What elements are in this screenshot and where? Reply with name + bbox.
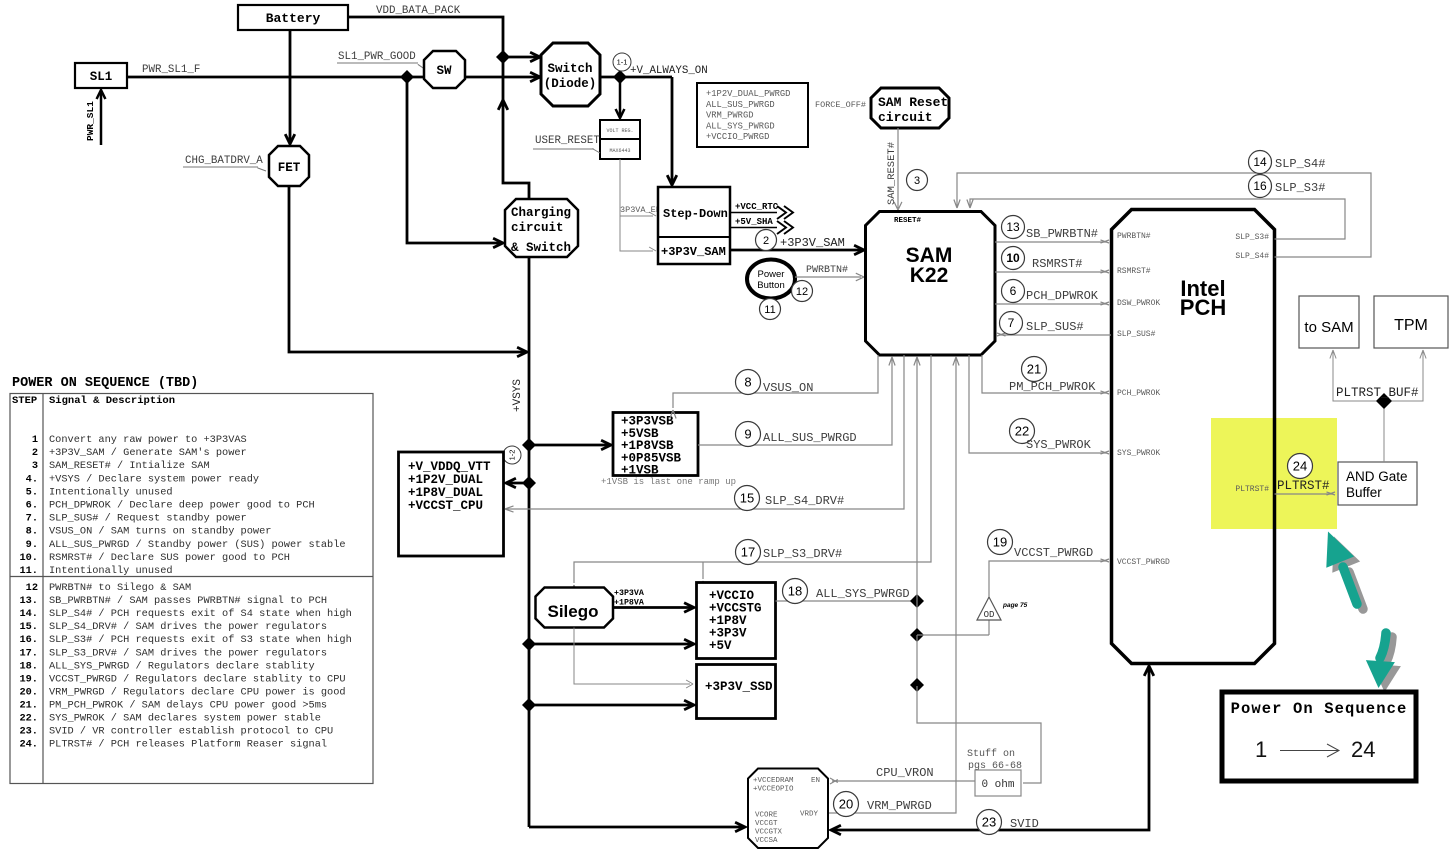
svg-text:+1P8V_DUAL: +1P8V_DUAL	[408, 486, 483, 500]
svg-text:7.: 7.	[26, 513, 38, 525]
node 11	[760, 299, 781, 320]
transistor FET	[269, 146, 309, 186]
node 8	[736, 370, 761, 395]
svg-text:VCORE: VCORE	[755, 812, 778, 820]
node junction ALL_SYS	[910, 594, 924, 608]
wire ALL_SYS_PWRGD net	[776, 600, 915, 602]
wire rail to VR core	[529, 826, 742, 829]
svg-text:K22: K22	[910, 264, 949, 287]
wire SLP_S4# PCH to SAM top	[957, 173, 1371, 257]
legend Power On Sequence box	[1222, 692, 1416, 781]
wire VRM_PWRGD VR to SAM	[828, 359, 956, 813]
svg-text:+1P2V_DUAL: +1P2V_DUAL	[408, 473, 483, 487]
svg-text:PM_PCH_PWROK: PM_PCH_PWROK	[1009, 380, 1096, 394]
svg-text:+VCCEOPIO: +VCCEOPIO	[753, 786, 794, 794]
svg-text:(Diode): (Diode)	[544, 77, 597, 91]
svg-text:15: 15	[740, 491, 754, 506]
svg-text:circuit: circuit	[878, 110, 933, 125]
svg-text:VCCSA: VCCSA	[755, 837, 778, 845]
svg-text:14.: 14.	[19, 608, 38, 620]
svg-text:+5V_SHA: +5V_SHA	[735, 217, 773, 227]
svg-text:+V_VDDQ_VTT: +V_VDDQ_VTT	[408, 460, 491, 474]
svg-text:14: 14	[1253, 155, 1267, 169]
block Charging circuit and Switch	[505, 199, 578, 257]
svg-text:SLP_S3#: SLP_S3#	[1275, 181, 1325, 195]
svg-text:19: 19	[993, 535, 1007, 550]
wire junction down to 0 ohm loop	[916, 635, 918, 686]
svg-text:Intentionally unused: Intentionally unused	[49, 486, 173, 498]
wire SYS_PWROK SAM to PCH	[969, 355, 1106, 453]
svg-text:PM_PCH_PWROK / SAM delays CPU: PM_PCH_PWROK / SAM delays CPU power good…	[49, 699, 327, 711]
svg-text:SVID: SVID	[1010, 817, 1039, 831]
wire +3P3V_SAM to SAM	[730, 249, 862, 252]
node 12	[792, 281, 813, 302]
svg-text:& Switch: & Switch	[511, 241, 571, 255]
svg-text:VRDY: VRDY	[800, 811, 819, 819]
svg-text:Silego: Silego	[547, 602, 598, 621]
node 1-2	[503, 446, 521, 464]
regulator +V_VDDQ_VTT dual rails	[399, 452, 504, 556]
node 9	[736, 422, 761, 447]
wire Battery to FET	[289, 30, 292, 143]
block SAM Reset circuit	[871, 88, 949, 128]
wire junction down to voltage regulator	[619, 77, 622, 116]
wire VSUS_ON SAM to standby regulators	[673, 355, 878, 408]
svg-text:23: 23	[982, 815, 996, 830]
wire SB_PWRBTN# SAM to PCH	[995, 241, 1106, 243]
svg-text:+V_ALWAYS_ON: +V_ALWAYS_ON	[630, 65, 708, 77]
wire RSMRST# SAM to PCH	[995, 271, 1106, 273]
svg-text:16.: 16.	[19, 634, 38, 646]
wire +V_ALWAYS_ON from Switch Diode	[600, 76, 672, 79]
wire rail to +3P3VSB regulators	[529, 444, 608, 447]
svg-text:SLP_S4#: SLP_S4#	[1235, 252, 1269, 261]
wire ALL_SUS_PWRGD to SAM	[698, 359, 892, 445]
svg-text:SYS_PWROK / SAM declares syst: SYS_PWROK / SAM declares system power st…	[49, 713, 321, 725]
svg-text:5.: 5.	[26, 486, 38, 498]
node junction PLTRST_BUF#	[1376, 393, 1392, 409]
svg-text:PWR_SL1_F: PWR_SL1_F	[142, 64, 200, 76]
battery Battery	[238, 5, 348, 30]
svg-text:12: 12	[796, 286, 808, 298]
svg-text:to SAM: to SAM	[1304, 319, 1353, 336]
svg-text:6.: 6.	[26, 500, 38, 512]
svg-text:24: 24	[1293, 459, 1307, 474]
wire SVID PCH to VR	[833, 667, 1149, 830]
svg-text:FET: FET	[278, 161, 301, 175]
node 17	[736, 540, 761, 565]
svg-text:VOLT REG.: VOLT REG.	[606, 128, 633, 134]
svg-text:ALL_SYS_PWRGD: ALL_SYS_PWRGD	[706, 121, 775, 131]
svg-text:+5V: +5V	[709, 639, 732, 653]
svg-text:RSMRST#: RSMRST#	[1032, 257, 1082, 271]
node 20	[834, 792, 859, 817]
svg-text:SB_PWRBTN# / SAM passes PWRBTN: SB_PWRBTN# / SAM passes PWRBTN# signal t…	[49, 595, 327, 607]
block Silego	[536, 588, 614, 628]
block signal list PWRGD	[697, 83, 808, 147]
block to SAM	[1299, 296, 1359, 348]
svg-text:16: 16	[1253, 179, 1267, 193]
svg-text:1: 1	[32, 434, 38, 446]
svg-text:VCCST_PWRGD / Regulators decla: VCCST_PWRGD / Regulators declare stablit…	[49, 673, 346, 685]
svg-text:Intentionally unused: Intentionally unused	[49, 565, 173, 577]
svg-text:VCCST_PWRGD: VCCST_PWRGD	[1014, 546, 1093, 560]
node junction VRON	[910, 678, 924, 692]
buffer AND Gate Buffer	[1338, 462, 1417, 505]
svg-text:USER_RESET: USER_RESET	[535, 135, 600, 147]
svg-text:9: 9	[744, 427, 751, 442]
regulator Step-Down +3P3V_SAM	[658, 187, 730, 264]
svg-text:CPU_VRON: CPU_VRON	[876, 766, 934, 780]
svg-text:ALL_SUS_PWRGD: ALL_SUS_PWRGD	[706, 100, 775, 110]
svg-text:+VCCEDRAM: +VCCEDRAM	[753, 777, 794, 785]
svg-text:19.: 19.	[19, 673, 38, 685]
svg-text:SL1_PWR_GOOD: SL1_PWR_GOOD	[338, 51, 416, 63]
svg-text:7: 7	[1008, 316, 1015, 330]
svg-text:SAM_RESET#: SAM_RESET#	[886, 142, 898, 205]
svg-text:PCH_DPWROK: PCH_DPWROK	[1026, 289, 1099, 303]
button Power Button	[747, 260, 795, 299]
svg-text:+1P2V_DUAL_PWRGD: +1P2V_DUAL_PWRGD	[706, 89, 790, 99]
regulator +VCCIO system rails	[697, 583, 776, 659]
svg-text:PLTRST#: PLTRST#	[1235, 485, 1269, 494]
regulator +3P3VSB standby rails	[613, 413, 698, 476]
wire rail to +V_VDDQ regulators	[508, 482, 529, 485]
svg-text:PLTRST#: PLTRST#	[1277, 479, 1330, 493]
svg-text:RESET#: RESET#	[894, 217, 922, 225]
wire PWR_SL1 into SL1	[100, 90, 103, 145]
svg-text:ALL_SUS_PWRGD / Standby power: ALL_SUS_PWRGD / Standby power (SUS) powe…	[49, 539, 346, 551]
node 1-1	[613, 53, 631, 71]
svg-text:22.: 22.	[19, 713, 38, 725]
svg-text:3P3VA_EN: 3P3VA_EN	[620, 205, 661, 215]
node 2	[756, 230, 777, 251]
wire PM_PCH_PWROK SAM to PCH	[982, 355, 1106, 393]
svg-text:13: 13	[1006, 220, 1020, 234]
node junction VDD_BATA	[496, 50, 510, 64]
svg-text:PWRBTN#: PWRBTN#	[806, 265, 848, 276]
node 15	[735, 486, 760, 511]
svg-text:20: 20	[839, 797, 853, 812]
svg-text:RSMRST#: RSMRST#	[1117, 267, 1151, 276]
svg-text:FORCE_OFF#: FORCE_OFF#	[815, 100, 866, 110]
svg-text:+3P3V_SAM: +3P3V_SAM	[780, 236, 845, 250]
wire Silego to VCCIO regulators	[613, 606, 691, 609]
wire CPU_VRON to VR enable	[832, 780, 975, 782]
node junction PWR_SL1_F	[400, 70, 414, 84]
svg-text:1-2: 1-2	[508, 450, 517, 461]
svg-text:SL1: SL1	[90, 70, 113, 84]
svg-text:Battery: Battery	[266, 11, 321, 26]
svg-text:24.: 24.	[19, 739, 38, 751]
svg-text:8: 8	[744, 375, 751, 390]
svg-text:17: 17	[741, 545, 755, 560]
node 23	[977, 810, 1002, 835]
svg-text:SAM_RESET# / Intialize SAM: SAM_RESET# / Intialize SAM	[49, 460, 210, 472]
node junction rail B	[522, 476, 536, 490]
wire PWRBTN# to SAM	[795, 276, 861, 278]
svg-text:17.: 17.	[19, 647, 38, 659]
svg-text:3: 3	[914, 175, 920, 187]
regulator VOLT REG MAX6443	[600, 120, 640, 159]
svg-text:8.: 8.	[26, 526, 38, 538]
svg-text:PLTRST# / PCH releases Platfor: PLTRST# / PCH releases Platform Reaser s…	[49, 739, 327, 751]
svg-text:2: 2	[763, 235, 769, 247]
svg-text:1: 1	[1255, 737, 1267, 762]
svg-text:18: 18	[788, 584, 802, 599]
svg-text:0 ohm: 0 ohm	[981, 779, 1014, 791]
svg-text:+VCCST_CPU: +VCCST_CPU	[408, 499, 483, 513]
svg-text:PCH_DPWROK / Declare deep powe: PCH_DPWROK / Declare deep power good to …	[49, 500, 315, 512]
buffer OD open-drain	[977, 597, 1001, 620]
svg-text:VRM_PWRGD / Regulators declare: VRM_PWRGD / Regulators declare CPU power…	[49, 686, 346, 698]
svg-text:SLP_S3# / PCH requests exit of: SLP_S3# / PCH requests exit of S3 state …	[49, 634, 352, 646]
resistor 0 ohm	[975, 770, 1021, 796]
svg-text:ALL_SYS_PWRGD / Regulators dec: ALL_SYS_PWRGD / Regulators declare stabl…	[49, 660, 315, 672]
svg-text:SAM Reset: SAM Reset	[878, 95, 948, 110]
annotation teal arrow to sequence box	[1372, 637, 1401, 692]
wire junction down to OD buffer	[916, 601, 918, 635]
svg-text:page 75: page 75	[1002, 602, 1028, 609]
svg-text:VDD_BATA_PACK: VDD_BATA_PACK	[376, 5, 461, 17]
svg-text:Signal & Description: Signal & Description	[49, 395, 175, 407]
wire VCCST_PWRGD to PCH	[989, 561, 1106, 597]
block SL1	[75, 63, 127, 88]
annotation teal arrow to highlight	[1332, 537, 1363, 610]
svg-text:10.: 10.	[19, 552, 38, 564]
svg-text:VCCGTX: VCCGTX	[755, 829, 783, 837]
svg-text:SW: SW	[436, 64, 452, 78]
svg-text:12: 12	[26, 582, 38, 594]
svg-text:PLTRST_BUF#: PLTRST_BUF#	[1336, 386, 1419, 400]
wire PLTRST_BUF# net	[1383, 401, 1385, 462]
svg-text:Power On Sequence: Power On Sequence	[1231, 700, 1408, 718]
svg-text:TPM: TPM	[1394, 317, 1428, 334]
svg-text:SLP_S3#: SLP_S3#	[1235, 233, 1269, 242]
svg-text:SLP_SUS#: SLP_SUS#	[1026, 320, 1084, 334]
svg-text:PCH_PWROK: PCH_PWROK	[1117, 389, 1160, 398]
svg-text:20.: 20.	[19, 686, 38, 698]
svg-text:1-1: 1-1	[617, 58, 628, 67]
wire SLP_S3_DRV# SAM to Silego and VCCIO regulators	[574, 355, 931, 583]
svg-text:MAX6443: MAX6443	[609, 148, 630, 154]
svg-text:VRM_PWRGD: VRM_PWRGD	[706, 111, 754, 121]
svg-text:+3P3V_SAM: +3P3V_SAM	[661, 245, 726, 259]
svg-text:Button: Button	[757, 280, 784, 291]
svg-text:SLP_S4#: SLP_S4#	[1275, 157, 1325, 171]
svg-text:24: 24	[1351, 737, 1375, 762]
switch SW	[424, 51, 465, 88]
svg-text:SYS_PWROK: SYS_PWROK	[1117, 449, 1160, 458]
svg-text:21: 21	[1027, 362, 1041, 377]
wire Silego to SSD regulator	[574, 628, 690, 685]
node junction +V_ALWAYS_ON	[613, 70, 627, 84]
svg-text:PWRBTN# to Silego & SAM: PWRBTN# to Silego & SAM	[49, 582, 191, 594]
svg-text:AND Gate: AND Gate	[1346, 469, 1408, 484]
svg-text:SLP_S3_DRV#: SLP_S3_DRV#	[763, 547, 842, 561]
svg-text:ALL_SYS_PWRGD: ALL_SYS_PWRGD	[816, 587, 910, 601]
svg-text:OD: OD	[984, 610, 995, 620]
wire VDD_BATA_PACK from Battery to junction	[348, 17, 503, 57]
svg-text:SYS_PWROK: SYS_PWROK	[1026, 438, 1092, 452]
svg-text:11.: 11.	[19, 565, 38, 577]
block TPM	[1374, 296, 1448, 348]
svg-text:PWRBTN#: PWRBTN#	[1117, 232, 1151, 241]
wire +VSYS rail	[528, 257, 531, 827]
svg-text:+VSYS / Declare system power r: +VSYS / Declare system power ready	[49, 473, 259, 485]
regulator VR core	[748, 769, 828, 849]
svg-text:ALL_SUS_PWRGD: ALL_SUS_PWRGD	[763, 431, 857, 445]
switch Switch (Diode)	[541, 43, 600, 106]
wire SW to Switch Diode	[465, 76, 538, 79]
svg-text:Buffer: Buffer	[1346, 485, 1382, 500]
svg-text:+3P3V_SAM / Generate SAM's pow: +3P3V_SAM / Generate SAM's power	[49, 447, 247, 459]
svg-text:circuit: circuit	[511, 221, 564, 235]
svg-text:Power: Power	[758, 269, 785, 280]
svg-text:2: 2	[32, 447, 38, 459]
svg-text:Step-Down: Step-Down	[663, 207, 728, 221]
svg-text:SLP_S4_DRV#: SLP_S4_DRV#	[765, 494, 844, 508]
wire FET to +VSYS rail	[289, 186, 524, 352]
svg-text:+VCCIO_PWRGD: +VCCIO_PWRGD	[706, 132, 769, 142]
wire rail to +3P3V_SSD regulator	[529, 704, 691, 707]
svg-text:VRM_PWRGD: VRM_PWRGD	[867, 799, 932, 813]
svg-text:10: 10	[1006, 251, 1020, 265]
svg-text:PCH: PCH	[1180, 295, 1226, 320]
node 18	[783, 579, 808, 604]
svg-text:SLP_S4# / PCH requests exit of: SLP_S4# / PCH requests exit of S4 state …	[49, 608, 352, 620]
svg-text:4.: 4.	[26, 473, 38, 485]
node junction rail D	[522, 698, 536, 712]
node junction rail A	[522, 438, 536, 452]
svg-text:SLP_S4_DRV# / SAM drives the p: SLP_S4_DRV# / SAM drives the power regul…	[49, 621, 327, 633]
svg-text:3: 3	[32, 460, 38, 472]
node 3	[907, 170, 928, 191]
wire 3P3VA_EN from regulator to Step-Down	[620, 159, 653, 216]
svg-text:SLP_SUS# / Request standby pow: SLP_SUS# / Request standby power	[49, 513, 247, 525]
svg-text:6: 6	[1010, 284, 1017, 298]
wire +V_ALWAYS_ON down to Step-Down	[671, 77, 674, 184]
svg-text:15.: 15.	[19, 621, 38, 633]
wire SAM_RESET# to SAM	[897, 128, 899, 208]
svg-text:DSW_PWROK: DSW_PWROK	[1117, 299, 1160, 308]
regulator +3P3V_SSD	[697, 665, 776, 719]
svg-text:+1VSB: +1VSB	[621, 464, 659, 478]
wire SLP_S3# PCH to SAM top	[970, 199, 1345, 239]
highlight yellow region PLTRST	[1211, 418, 1337, 529]
svg-text:Stuff on: Stuff on	[967, 748, 1015, 760]
wire PCH_DPWROK SAM to PCH	[995, 303, 1106, 305]
wire PLTRST# PCH to AND gate	[1275, 493, 1333, 495]
node junction rail C	[522, 637, 536, 651]
wire SLP_S4_DRV# SAM to VDDQ regulators	[507, 355, 904, 509]
svg-text:PWR_SL1: PWR_SL1	[85, 101, 96, 141]
svg-text:9.: 9.	[26, 539, 38, 551]
svg-text:21.: 21.	[19, 699, 38, 711]
svg-text:Convert any raw power to +3P3V: Convert any raw power to +3P3VAS	[49, 434, 247, 446]
node 24	[1288, 454, 1313, 479]
svg-text:VSUS_ON: VSUS_ON	[763, 381, 813, 395]
svg-text:EN: EN	[811, 777, 820, 785]
svg-text:23.: 23.	[19, 726, 38, 738]
node 19	[988, 530, 1013, 555]
svg-text:+3P3VA: +3P3VA	[614, 589, 644, 598]
svg-text:SVID / VR controller establish: SVID / VR controller establish protocol …	[49, 726, 333, 738]
chip SAM K22	[866, 212, 996, 356]
wire junction into Switch Diode top input	[503, 56, 538, 59]
svg-text:POWER ON SEQUENCE (TBD): POWER ON SEQUENCE (TBD)	[12, 376, 198, 391]
svg-text:+3P3V_SSD: +3P3V_SSD	[705, 680, 773, 694]
chip Intel PCH	[1112, 210, 1275, 664]
svg-text:STEP: STEP	[12, 395, 37, 407]
svg-text:22: 22	[1015, 424, 1029, 439]
wire rail to +VCCIO regulators	[529, 643, 691, 646]
svg-text:11: 11	[764, 304, 775, 316]
wire charging circuit up to battery junction	[503, 59, 529, 199]
svg-text:+1P8VA: +1P8VA	[614, 599, 644, 608]
svg-text:+VSYS: +VSYS	[512, 379, 524, 412]
svg-text:Switch: Switch	[547, 62, 592, 76]
svg-text:pgs 66-68: pgs 66-68	[968, 761, 1022, 772]
node junction OD	[910, 628, 924, 642]
wire PWR_SL1_F from SL1 to SW	[127, 76, 424, 79]
svg-text:CHG_BATDRV_A: CHG_BATDRV_A	[185, 155, 263, 167]
svg-text:SB_PWRBTN#: SB_PWRBTN#	[1026, 227, 1098, 241]
wire ALL_SYS_PWRGD up to SAM	[916, 359, 918, 601]
wire SLP_SUS# PCH to SAM	[999, 334, 1111, 336]
wire branch to Charging circuit	[407, 77, 500, 243]
svg-text:VSUS_ON / SAM turns on standby: VSUS_ON / SAM turns on standby power	[49, 526, 271, 538]
svg-text:SLP_SUS#: SLP_SUS#	[1117, 330, 1156, 339]
svg-text:13.: 13.	[19, 595, 38, 607]
svg-text:VCCGT: VCCGT	[755, 820, 778, 828]
svg-text:SLP_S3_DRV# / SAM drives the p: SLP_S3_DRV# / SAM drives the power regul…	[49, 647, 327, 659]
svg-text:+VCC_RTC: +VCC_RTC	[735, 202, 779, 212]
svg-text:18.: 18.	[19, 660, 38, 672]
svg-text:RSMRST# / Declare SUS power go: RSMRST# / Declare SUS power good to PCH	[49, 552, 290, 564]
svg-text:+1VSB is last one ramp up: +1VSB is last one ramp up	[601, 477, 736, 487]
svg-text:Charging: Charging	[511, 206, 571, 220]
svg-text:VCCST_PWRGD: VCCST_PWRGD	[1117, 558, 1170, 567]
